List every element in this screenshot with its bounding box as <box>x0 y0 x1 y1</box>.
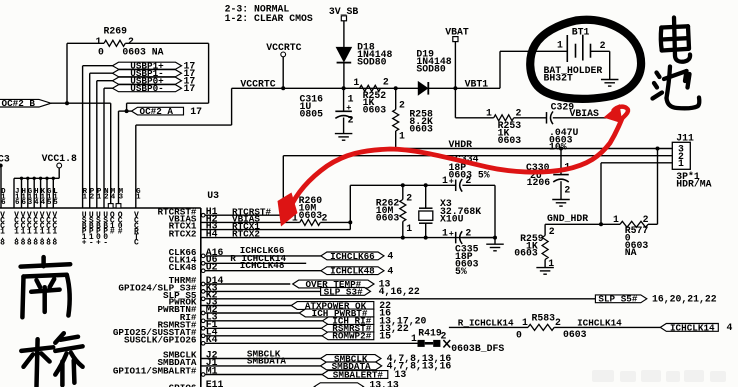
svg-text:0805: 0805 <box>300 109 324 120</box>
junction VHDR / R577 branch <box>656 147 660 151</box>
wire VBT1 to R253 <box>455 117 493 119</box>
net label R_ICHCLK14 wire <box>449 326 528 328</box>
svg-text:VCC1.8: VCC1.8 <box>14 211 19 248</box>
hand-drawn Chinese character DIAN (electric) <box>661 18 690 62</box>
wire R253 to C329 <box>514 117 547 119</box>
svg-text:0603: 0603 <box>514 247 538 258</box>
pin F1 wire RSMRST# <box>205 327 321 329</box>
svg-text:1: 1 <box>522 317 528 328</box>
R269 labels <box>95 25 163 57</box>
pin G1 wire and designator - VCCRTC into U3 <box>136 88 232 208</box>
pin H2 designator and VBIAS label inside U3 <box>169 213 218 224</box>
off-page connector SLP_S3# pages 4,16,22 <box>321 286 420 297</box>
svg-text:4: 4 <box>387 265 393 276</box>
svg-text:2: 2 <box>465 175 471 186</box>
svg-text:SLP S5#: SLP S5# <box>598 294 637 305</box>
pin designators R1 P2 P1 N2 M4 M3 <box>83 188 124 201</box>
svg-text:SUSCLK/GPIO26: SUSCLK/GPIO26 <box>124 334 197 345</box>
svg-text:1: 1 <box>678 158 684 169</box>
wire USBP1- from arrow to pin P2 <box>90 73 113 208</box>
hand-drawn red arrow curve annotation <box>289 107 628 210</box>
resistor R262 10M 0603 <box>376 185 413 237</box>
red arrowhead at RTCX1 pins <box>278 193 298 227</box>
svg-text:1: 1 <box>613 214 619 225</box>
svg-text:BT1: BT1 <box>572 27 590 38</box>
svg-text:VCCRTC: VCCRTC <box>134 211 139 248</box>
faint watermark ghost bottom right <box>592 370 726 382</box>
net connector RSMRST# pages 13,22 <box>321 323 409 334</box>
wire VHDR rail to J11 pin 3 <box>396 148 673 150</box>
svg-text:1: 1 <box>557 40 563 51</box>
capacitor C330 2U 1206 <box>526 149 570 200</box>
capacitor C335 18P 0603 5% on bottom rail <box>442 227 479 277</box>
svg-text:4: 4 <box>727 322 733 333</box>
pin H1 designator and RTCRST# label inside U3 <box>157 206 217 217</box>
svg-text:0603: 0603 <box>563 329 587 340</box>
svg-text:2: 2 <box>383 76 389 87</box>
svg-text:0603: 0603 <box>498 135 522 146</box>
pin K4 designator and SUSCLK/GPIO26 label inside U3 <box>124 334 218 345</box>
svg-text:USBP0-: USBP0- <box>130 83 163 94</box>
pin K2 designator and SLP_S5 label inside U3 <box>163 290 218 301</box>
junctions on VCC1.8 bus <box>20 177 55 180</box>
resistor R419 0603B_DFS deleted <box>411 327 504 354</box>
power flag VCC1.8 <box>42 153 77 178</box>
net labels RTCRST# VBIAS RTCX1 RTCX2 on wires <box>232 206 271 239</box>
wire VCCRTC horizontal rail <box>232 87 419 89</box>
wire ICHCLK14 to connector <box>554 326 660 328</box>
capacitor C334 18P on top rail <box>442 175 471 192</box>
pin M3 square terminal <box>116 204 121 208</box>
svg-text:G1: G1 <box>136 188 141 201</box>
svg-text:16,20,21,22: 16,20,21,22 <box>652 294 717 305</box>
junction R262 bottom <box>401 236 405 240</box>
pin H4 designator and RTCX2 label inside U3 <box>169 229 218 240</box>
svg-text:1: 1 <box>406 223 412 234</box>
power flag VCCRTC <box>266 42 301 88</box>
off-page connector ICHCLK66 page 4 <box>321 251 394 262</box>
wire VBT1 to battery <box>455 51 567 88</box>
svg-text:2: 2 <box>643 214 649 225</box>
svg-text:1: 1 <box>442 227 448 238</box>
svg-text:0: 0 <box>98 46 104 57</box>
svg-text:VCC1.8: VCC1.8 <box>33 211 38 248</box>
junction OC#2_A node <box>125 109 129 113</box>
diode D18 1N4148 SOD80 <box>337 48 352 89</box>
C316 labels <box>300 94 354 126</box>
hand-drawn Chinese character QIAO (bridge) <box>21 333 82 386</box>
pin D14 wire THRM# <box>205 283 290 285</box>
pin designators J16 H16 G13 H14 K14 G15 L15 <box>15 188 58 207</box>
svg-text:0603: 0603 <box>299 210 323 221</box>
pin J1 designator and SMBDATA label inside U3 <box>157 357 217 368</box>
svg-text:ICHCLK66: ICHCLK66 <box>330 251 375 262</box>
pin L4 wire ROMWP2# <box>205 335 322 337</box>
pin H4 wire RTCX2 bottom rail <box>201 237 495 239</box>
pin M4 square terminal <box>108 204 113 208</box>
svg-text:M4: M4 <box>111 188 116 201</box>
svg-text:H4: H4 <box>206 229 218 240</box>
svg-text:2: 2 <box>564 184 570 195</box>
svg-text:R1: R1 <box>83 188 88 201</box>
svg-text:C3: C3 <box>0 154 10 165</box>
svg-text:2: 2 <box>555 317 561 328</box>
svg-text:L15: L15 <box>53 188 58 207</box>
wire VCC1.8 bus feeding pins J16,H16,G13,H14,K14,G15,L15 <box>14 178 59 208</box>
svg-text:0603: 0603 <box>409 124 433 135</box>
junction R260 / crystal rail <box>348 220 352 224</box>
pin J3 wire ATXPOWER_OK <box>201 305 291 307</box>
svg-text:VCC1.8: VCC1.8 <box>40 211 45 248</box>
svg-text:ROMWP2#: ROMWP2# <box>332 331 371 342</box>
svg-text:N2: N2 <box>104 188 108 201</box>
junction R262 top <box>401 183 405 187</box>
pin M1 wire SMBALERT# <box>205 374 322 376</box>
svg-text:0603: 0603 <box>376 212 400 223</box>
ground for crystal circuit <box>486 243 504 245</box>
pin A16 designator and CLK66 label inside U3 <box>169 247 224 258</box>
svg-text:SOD80: SOD80 <box>416 64 446 75</box>
pin H1 bubble <box>201 213 205 217</box>
junction R252 / R258 <box>394 86 398 90</box>
svg-text:2: 2 <box>465 227 471 238</box>
off-page connector OC#2_A page 17 <box>127 106 203 117</box>
svg-text:1: 1 <box>411 333 417 344</box>
off-page connector SMBCLK pages 4,7,8,13,16 <box>321 353 452 364</box>
svg-text:2: 2 <box>321 213 327 224</box>
svg-text:BH32T: BH32T <box>544 73 574 84</box>
wire VBIAS stub <box>553 117 621 119</box>
off-page connector USBP1+ page 17 <box>113 61 196 72</box>
off-page connector ICHCLK14 page 4 <box>660 322 732 333</box>
svg-text:17: 17 <box>184 83 196 94</box>
svg-text:15: 15 <box>379 331 391 342</box>
wire OC#2_B to pin M4 <box>51 103 111 203</box>
off-page connector SMBDATA pages 4,7,8,13,16 <box>321 361 452 372</box>
junction VBAT / VBT1 <box>453 86 457 90</box>
svg-text:D16: D16 <box>1 188 6 207</box>
svg-text:RTCX2: RTCX2 <box>232 229 260 240</box>
svg-text:ICHCLK14: ICHCLK14 <box>577 318 622 329</box>
off-page connector SLP_S5# pages 16,20,21,22 <box>595 294 716 305</box>
pin A16 wire CLK66 <box>205 255 321 257</box>
net connector SMBALERT# page 13 <box>322 369 406 380</box>
junction GND_HDR / R577 <box>599 222 603 226</box>
junction X3 bottom <box>424 236 428 240</box>
svg-text:J11: J11 <box>676 132 694 143</box>
svg-text:SMBDATA: SMBDATA <box>247 356 286 367</box>
svg-text:1: 1 <box>353 77 359 88</box>
hand-drawn Chinese character NAN (south) <box>21 257 71 317</box>
svg-text:VCC1.8: VCC1.8 <box>52 211 57 248</box>
red arrowhead at VBIAS <box>604 104 623 124</box>
svg-text:M3: M3 <box>119 188 124 201</box>
svg-text:+: + <box>449 177 454 187</box>
svg-text:2: 2 <box>549 226 555 237</box>
junction ground leg <box>493 236 497 240</box>
svg-text:VCC1.8: VCC1.8 <box>0 211 5 248</box>
wire USBP0- from arrow to pin N2 <box>104 88 113 208</box>
IC U3 southbridge body outline (top edge and right edge) <box>0 208 201 387</box>
wire top rail right of C334 <box>462 184 495 186</box>
svg-text:VCC1.8: VCC1.8 <box>27 211 32 248</box>
wire J11 pin1 to GND_HDR <box>601 163 672 225</box>
svg-text:1-2: CLEAR CMOS: 1-2: CLEAR CMOS <box>225 13 313 24</box>
svg-text:RTCX2: RTCX2 <box>169 229 197 240</box>
svg-text:1: 1 <box>399 130 405 141</box>
svg-text:0603: 0603 <box>363 105 387 116</box>
pin J2 wire SMBCLK <box>201 358 321 360</box>
pin D14 designator and THRM# label inside U3 <box>169 275 224 286</box>
svg-text:GPIO11/SMBALRT#: GPIO11/SMBALRT# <box>113 366 197 377</box>
pin J2 designator and SMBCLK label inside U3 <box>163 349 218 360</box>
junction OC#2_B / R269 <box>65 101 69 105</box>
svg-text:J16: J16 <box>15 188 20 207</box>
svg-text:H14: H14 <box>34 188 39 207</box>
svg-text:USBP1-: USBP1- <box>89 211 94 248</box>
hand-drawn marker circle around battery <box>530 20 641 99</box>
svg-text:USBP1+: USBP1+ <box>82 211 87 248</box>
resistor R577 0 0603 NA <box>601 214 658 258</box>
svg-text:K14: K14 <box>41 188 46 207</box>
net vertical labels USBP1+ USBP1- USBP0+ USBP0- OC1# OC0# inside U3 <box>82 211 123 248</box>
svg-text:CLK48: CLK48 <box>169 262 197 273</box>
pin M2 wire ICH_PWRBT# <box>205 312 299 314</box>
svg-text:+: + <box>346 103 351 113</box>
D19 labels <box>416 49 451 75</box>
junction X3 top <box>424 183 428 187</box>
net connector ATXPOWER_OK page 22 <box>291 300 391 311</box>
svg-text:SOD80: SOD80 <box>357 57 387 68</box>
pin U6 wire R_ICHCLK14 stub <box>205 262 306 264</box>
resistor R252 1K 0603 <box>353 76 389 115</box>
svg-text:P1: P1 <box>97 188 102 201</box>
pin F1 designator and RSMRST# label inside U3 <box>157 319 217 330</box>
wire OC#2_A to pin M3 <box>119 111 127 204</box>
svg-text:VBIAS: VBIAS <box>570 108 600 119</box>
off-page connector USBP0+ page 17 <box>113 76 196 87</box>
svg-text:1: 1 <box>442 175 448 186</box>
svg-text:H16: H16 <box>21 188 26 207</box>
svg-text:E11: E11 <box>206 379 224 387</box>
hand-drawn Chinese character CHI (pond) <box>653 67 700 109</box>
svg-text:VBAT: VBAT <box>445 27 469 38</box>
svg-text:R269: R269 <box>104 25 128 36</box>
svg-text:ICHCLK48: ICHCLK48 <box>330 266 375 277</box>
svg-text:ICHCLK48: ICHCLK48 <box>240 260 285 271</box>
junction VCCRTC flag to rail <box>281 86 285 90</box>
connector J11 3P*1 HDR/MA <box>672 132 711 189</box>
capacitor C334 label block 18P 0603 5% <box>449 154 490 181</box>
svg-text:2: 2 <box>399 100 405 111</box>
svg-text:VCC1.8: VCC1.8 <box>46 211 51 248</box>
svg-text:X10U: X10U <box>440 214 464 225</box>
svg-text:13: 13 <box>395 369 407 380</box>
svg-text:R_ICHCLK14: R_ICHCLK14 <box>458 318 514 329</box>
pin K4 wire to R419 <box>205 342 418 344</box>
pin L3 designator and RI# label inside U3 <box>180 312 218 323</box>
pin U2 wire CLK48 <box>205 270 321 272</box>
svg-text:2: 2 <box>515 107 521 118</box>
svg-text:OC#2 A: OC#2 A <box>140 106 174 117</box>
svg-text:HDR/MA: HDR/MA <box>676 178 711 189</box>
pin J1 wire SMBDATA <box>201 365 321 367</box>
svg-text:0603 NA: 0603 NA <box>122 46 163 57</box>
svg-text:VCCRTC: VCCRTC <box>266 42 301 53</box>
net connector ICH_RI# pages 13,17,20 <box>323 316 427 327</box>
svg-text:USBP0-: USBP0- <box>103 211 108 248</box>
resistor R259 1K 0603 <box>514 224 555 268</box>
pin U2 designator and CLK48 label inside U3 <box>169 262 218 273</box>
power flag VBAT <box>445 27 469 118</box>
ground for C330 <box>552 199 570 201</box>
svg-text:U3: U3 <box>207 190 219 201</box>
capacitor C316 1U 0805 polarized <box>335 88 352 133</box>
svg-text:K4: K4 <box>206 334 218 345</box>
partial connector at bottom edge pages 13,16 <box>314 380 399 387</box>
svg-text:VCC1.8: VCC1.8 <box>21 211 26 248</box>
resistor R253 1K 0603 <box>486 107 521 146</box>
svg-text:2: 2 <box>600 40 606 51</box>
svg-text:USBP0+: USBP0+ <box>96 211 101 248</box>
net VCC1.8 vertical labels inside U3 <box>14 211 57 248</box>
svg-text:2: 2 <box>440 331 446 342</box>
wire R577 branch down <box>657 149 659 225</box>
svg-text:G13: G13 <box>28 188 33 207</box>
resistor R258 8.2K 0603 <box>393 88 433 148</box>
svg-text:ICHCLK14: ICHCLK14 <box>670 322 715 333</box>
resistor R583 0 0603 <box>516 312 587 340</box>
svg-text:4: 4 <box>387 251 393 262</box>
svg-text:1: 1 <box>486 107 492 118</box>
svg-text:0: 0 <box>516 329 522 340</box>
off-page connector USBP1- page 17 <box>113 68 196 79</box>
off-page connector OC#2_B at left edge <box>0 98 51 109</box>
wire bottom rail right of C335 and ground leg <box>462 185 495 244</box>
power flag VCC3 (cut at left edge) for pin D16 <box>0 154 10 209</box>
net connector ROMWP2# page 15 <box>322 331 391 342</box>
ground for C316 <box>335 133 353 135</box>
svg-text:OC#2 B: OC#2 B <box>2 98 36 109</box>
battery BT1 BAT_HOLDER BH32T <box>544 27 610 84</box>
D18 labels <box>357 42 392 68</box>
wire RTCRST# from pin H1 up and right to J11 pin 2 <box>205 156 672 216</box>
diode D19 1N4148 SOD80 <box>418 82 455 95</box>
svg-text:2: 2 <box>406 193 412 204</box>
svg-text:GND_HDR: GND_HDR <box>547 213 588 224</box>
pin K2 wire SLP_S5# <box>205 298 595 300</box>
svg-text:10%: 10% <box>549 142 567 153</box>
crystal X3 32.768K X10U <box>419 185 481 237</box>
svg-text:R419: R419 <box>418 327 442 338</box>
pin H2 wire VBIAS with resistor R260 10M 0603 <box>201 195 350 225</box>
wire GND_HDR <box>545 223 601 225</box>
capacitor C329 .047U 0603 10% <box>547 102 579 153</box>
svg-text:M1: M1 <box>206 365 218 376</box>
off-page connector USBP0- page 17 <box>113 83 196 94</box>
wire crystal top rail <box>350 184 455 186</box>
ground for BT1 <box>601 79 619 81</box>
svg-text:P2: P2 <box>90 188 95 201</box>
pin H3 designator and RTCX1 label inside U3 <box>169 221 218 232</box>
svg-text:GPIO6: GPIO6 <box>169 383 197 387</box>
note 2-3 NORMAL / 1-2 CLEAR CMOS <box>225 4 313 24</box>
wire USBP1+ from arrow to pin R1 <box>83 66 113 208</box>
svg-text:4,16,22: 4,16,22 <box>379 286 420 297</box>
svg-text:NA: NA <box>625 247 637 258</box>
junction D18 / C316 on VCCRTC rail <box>342 86 346 90</box>
power flag 3V_SB <box>329 6 359 47</box>
svg-text:5%: 5% <box>455 266 467 277</box>
svg-text:+: + <box>449 229 454 239</box>
off-page connector ICHCLK48 page 4 <box>321 265 394 276</box>
junction C330 on VHDR <box>559 147 563 151</box>
svg-text:OC0#: OC0# <box>118 211 123 237</box>
svg-text:17: 17 <box>190 106 202 117</box>
wire USBP0+ from arrow to pin P1 <box>97 81 113 208</box>
svg-text:0603B_DFS: 0603B_DFS <box>451 343 504 354</box>
svg-text:VCC1.8: VCC1.8 <box>42 153 77 164</box>
pin K3 wire SLP_S3# <box>205 290 321 292</box>
svg-text:2: 2 <box>348 115 354 126</box>
svg-text:U2: U2 <box>206 262 218 273</box>
pin J3 designator and PWROK label inside U3 <box>169 296 218 307</box>
svg-text:13,13: 13,13 <box>369 380 399 387</box>
pin M2 designator and PWRBTN# label inside U3 <box>157 304 217 315</box>
svg-text:1206: 1206 <box>527 177 551 188</box>
svg-text:G15: G15 <box>47 188 52 207</box>
svg-text:SLP S3#: SLP S3# <box>324 286 363 297</box>
pin K3 designator and GPIO24/SLP_S3# label inside U3 <box>118 282 217 293</box>
svg-text:R583: R583 <box>532 312 556 323</box>
off-page connector OVER_TEMP# page 13 <box>293 279 391 290</box>
pin L3 wire ICH_RI# <box>205 320 323 322</box>
pin H3 wire RTCX1 <box>201 185 350 229</box>
ground for R259 <box>536 267 554 269</box>
net connector ICH_PWRBT# page 16 <box>299 308 391 319</box>
pin M1 designator and GPIO11/SMBALRT# label inside U3 <box>113 365 218 376</box>
pin U6 designator and CLK14 label inside U3 <box>169 254 218 265</box>
svg-text:OC1#: OC1# <box>110 211 115 237</box>
svg-text:VHDR: VHDR <box>449 139 473 150</box>
resistor R269 0 0603 NA with rectangle net to OC#2_A <box>67 40 209 111</box>
svg-text:VCCRTC: VCCRTC <box>240 79 275 90</box>
pin L4 designator and GPIO25/SUSSTAT# label inside U3 <box>113 327 218 338</box>
